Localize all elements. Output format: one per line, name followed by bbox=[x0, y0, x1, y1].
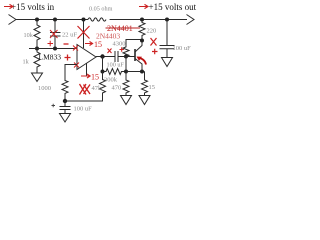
svg-text:0.05 ohm: 0.05 ohm bbox=[89, 6, 113, 13]
resistor 15 bbox=[142, 72, 148, 96]
10k value label bbox=[24, 32, 34, 39]
annotation red minus at inverting input bbox=[64, 43, 69, 45]
transistor Q1 collector diagonal bbox=[135, 41, 142, 53]
wire bottom feedback run bbox=[65, 96, 103, 101]
ground (left divider) bbox=[32, 73, 43, 82]
svg-text:100 uF: 100 uF bbox=[74, 106, 93, 113]
svg-text:+15 volts out: +15 volts out bbox=[149, 2, 197, 12]
4300 value label bbox=[113, 41, 126, 48]
svg-text:10k: 10k bbox=[24, 32, 34, 39]
0.05 ohm value label bbox=[89, 6, 113, 13]
capacitor 100 uF (base drive) bbox=[115, 51, 118, 62]
wire base node down to divider bbox=[125, 57, 127, 72]
svg-text:100 uF: 100 uF bbox=[173, 45, 192, 52]
1000 value label bbox=[38, 85, 51, 92]
resistor 220 bbox=[139, 20, 145, 42]
15 value label bbox=[149, 84, 156, 91]
node +15 volts in label bbox=[11, 2, 55, 12]
220 value label bbox=[147, 28, 157, 35]
47k value label bbox=[92, 85, 103, 92]
svg-text:4300: 4300 bbox=[113, 41, 126, 48]
svg-text:470: 470 bbox=[112, 85, 122, 92]
2N4403 label bbox=[96, 32, 120, 41]
node junction K (base node) bbox=[124, 55, 128, 59]
node junction B (ref divider) bbox=[35, 47, 39, 51]
annotation red X (output cap old polarity) bbox=[151, 38, 157, 46]
annotation red x (base cap old polarity) bbox=[108, 49, 112, 54]
annotation red plus at non-inverting input bbox=[65, 55, 71, 61]
input connector chevron bbox=[9, 15, 17, 25]
annotation red x on inverting input bbox=[73, 46, 78, 51]
wire op-amp V- stub bbox=[86, 63, 88, 75]
annotation red x on non-inverting input bbox=[74, 63, 79, 68]
wire base node to transistor bbox=[118, 56, 135, 58]
svg-text:300k: 300k bbox=[104, 77, 118, 84]
wire top rail left bbox=[16, 19, 88, 21]
svg-text:1k: 1k bbox=[23, 59, 30, 66]
node junction F (feedback bottom node) bbox=[63, 99, 67, 103]
resistor 1000 bbox=[62, 65, 68, 102]
svg-text:2N4403: 2N4403 bbox=[96, 32, 120, 41]
2N4401 crossed-out label bbox=[107, 24, 133, 33]
wire output node down bbox=[102, 57, 104, 72]
470 value label bbox=[112, 85, 122, 92]
ground (output cap) bbox=[162, 58, 173, 67]
wire op-amp output bbox=[96, 56, 115, 58]
node junction N (output cap top) bbox=[165, 18, 169, 22]
ground (15 ohm) bbox=[139, 96, 150, 105]
resistor 4300 bbox=[123, 40, 142, 57]
annotation red arrow 15 (V- relabel) bbox=[81, 74, 90, 78]
wire 300k node to sense leg bbox=[126, 71, 145, 73]
resistor 470 bbox=[123, 72, 129, 96]
transistor Q1 base bar bbox=[134, 49, 136, 61]
svg-text:22 uF: 22 uF bbox=[62, 32, 77, 39]
annotation red + (output cap new polarity) bbox=[152, 49, 158, 55]
300k value label bbox=[104, 77, 118, 84]
svg-text:100 uF: 100 uF bbox=[107, 62, 125, 69]
svg-text:47k: 47k bbox=[92, 85, 103, 92]
annotation big red X over V+ wire bbox=[78, 26, 90, 39]
ground (feedback cap) bbox=[60, 114, 71, 123]
node junction I (470 top) bbox=[124, 70, 128, 74]
wire op-amp V+ to rail bbox=[83, 20, 85, 49]
annotation red X over 22uF polarity bbox=[50, 30, 58, 38]
svg-text:220: 220 bbox=[147, 28, 157, 35]
annotation red + (base cap new polarity) bbox=[120, 47, 125, 52]
node +15 volts out label bbox=[149, 2, 197, 12]
100 uF value label (base) bbox=[107, 62, 125, 69]
svg-text:LM833: LM833 bbox=[39, 53, 62, 62]
svg-text:1000: 1000 bbox=[38, 85, 51, 92]
svg-text:15: 15 bbox=[91, 73, 99, 82]
svg-text:15: 15 bbox=[149, 84, 156, 91]
resistor 0.05 ohm (inline squiggle) bbox=[88, 18, 106, 21]
capacitor 100 uF (feedback) bbox=[60, 101, 71, 114]
wire input strike arrow (red) bbox=[4, 4, 13, 8]
node junction D (22uF bottom) bbox=[53, 47, 57, 51]
100 uF value label (feedback) bbox=[74, 106, 93, 113]
ground (470) bbox=[121, 96, 132, 105]
resistor 10k bbox=[34, 20, 40, 49]
node junction G (output of op-amp) bbox=[100, 54, 104, 58]
node junction M (emitter/220) bbox=[140, 39, 144, 43]
node junction E (V+ pin on rail) bbox=[82, 18, 86, 22]
node junction C (22uF top) bbox=[53, 18, 57, 22]
svg-text:+15 volts in: +15 volts in bbox=[11, 2, 55, 12]
resistor 47k bbox=[100, 72, 106, 97]
LM833 label bbox=[39, 53, 62, 62]
annotation red arrow +15 (V+ relabel) bbox=[85, 42, 93, 46]
op-amp U1 LM833 bbox=[77, 45, 96, 70]
output arrowhead bbox=[187, 15, 195, 25]
plus mark (feedback cap) bbox=[52, 104, 56, 108]
resistor 300k (horizontal) bbox=[103, 69, 126, 75]
annotation red PNP arrow on emitter bbox=[137, 57, 147, 65]
resistor 1k bbox=[34, 49, 40, 74]
1k value label bbox=[23, 59, 30, 66]
annotation red + (22uF new polarity) bbox=[48, 41, 54, 46]
100 uF value label (output) bbox=[173, 45, 192, 52]
node junction H (300k left) bbox=[101, 70, 105, 74]
wire top rail right bbox=[110, 19, 187, 21]
wire inverting input rail bbox=[29, 48, 77, 50]
node junction J (collector on wire) bbox=[140, 70, 144, 74]
annotation red XX scribble bbox=[80, 84, 91, 95]
wire non-inverting input to feedback node bbox=[65, 65, 77, 82]
node junction A (10k top) bbox=[35, 18, 39, 22]
capacitor 100 uF (output) bbox=[160, 20, 175, 58]
node junction L (220 top on rail) bbox=[140, 18, 144, 22]
svg-text:15: 15 bbox=[94, 40, 102, 49]
wire output strike arrow (red) bbox=[139, 4, 148, 8]
capacitor 22 uF bbox=[50, 20, 61, 49]
transistor Q1 emitter diagonal bbox=[135, 59, 142, 72]
22 uF value label bbox=[62, 32, 77, 39]
